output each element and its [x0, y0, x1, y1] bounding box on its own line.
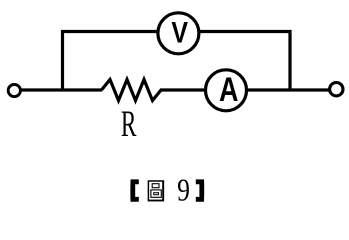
wire: resistor to ammeter [160, 88, 210, 91]
svg-text:9: 9 [177, 173, 190, 208]
caption character 圖 [148, 181, 163, 201]
caption right bracket [196, 179, 204, 201]
right terminal node [330, 83, 343, 96]
left terminal node [8, 84, 20, 96]
resistor R1 zigzag [102, 80, 162, 101]
voltmeter V circle [158, 13, 199, 54]
wire: main bottom line left terminal to resistor [21, 88, 102, 91]
caption left bracket [130, 179, 138, 201]
wire: right vertical branch [288, 30, 291, 92]
svg-text:A: A [219, 70, 238, 109]
svg-text:R: R [121, 104, 137, 144]
wire: left vertical branch [61, 30, 64, 92]
ammeter A circle [206, 70, 247, 111]
wire: top line through voltmeter [61, 30, 292, 33]
wire: ammeter to right terminal [242, 88, 329, 91]
svg-text:V: V [171, 15, 188, 49]
